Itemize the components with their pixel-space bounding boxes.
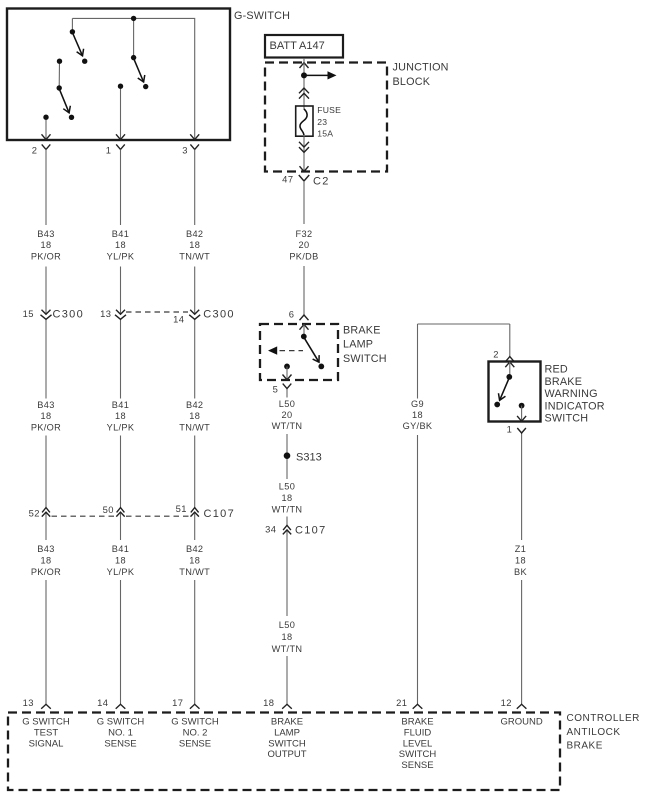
svg-text:OUTPUT: OUTPUT — [267, 749, 306, 760]
svg-text:WT/TN: WT/TN — [272, 421, 303, 431]
svg-text:18: 18 — [282, 632, 293, 642]
svg-text:B42: B42 — [186, 229, 203, 239]
svg-text:BRAKE: BRAKE — [567, 741, 603, 752]
svg-text:21: 21 — [396, 697, 407, 708]
svg-text:BRAKE: BRAKE — [401, 717, 433, 728]
svg-text:GROUND: GROUND — [500, 717, 542, 728]
svg-text:18: 18 — [41, 240, 52, 250]
svg-text:2: 2 — [32, 145, 38, 156]
svg-text:ANTILOCK: ANTILOCK — [567, 727, 621, 738]
svg-text:WT/TN: WT/TN — [272, 644, 303, 654]
svg-text:BLOCK: BLOCK — [393, 76, 431, 88]
svg-text:13: 13 — [100, 308, 111, 319]
svg-text:CONTROLLER: CONTROLLER — [567, 713, 640, 724]
svg-text:F32: F32 — [296, 229, 313, 239]
svg-text:B41: B41 — [112, 544, 129, 554]
svg-text:SWITCH: SWITCH — [268, 738, 306, 749]
svg-text:SIGNAL: SIGNAL — [29, 738, 64, 749]
svg-text:S313: S313 — [296, 452, 322, 464]
svg-text:13: 13 — [23, 697, 34, 708]
svg-text:SENSE: SENSE — [401, 760, 433, 771]
svg-text:50: 50 — [103, 504, 114, 515]
svg-text:BATT A147: BATT A147 — [270, 40, 325, 52]
svg-text:SENSE: SENSE — [104, 738, 136, 749]
svg-text:SWITCH: SWITCH — [343, 353, 387, 365]
svg-text:B43: B43 — [37, 400, 54, 410]
svg-text:FUSE: FUSE — [317, 105, 341, 115]
svg-text:14: 14 — [173, 313, 184, 324]
svg-text:NO. 1: NO. 1 — [108, 728, 133, 739]
svg-text:TN/WT: TN/WT — [179, 252, 210, 262]
svg-text:Z1: Z1 — [515, 544, 526, 554]
svg-text:C300: C300 — [53, 309, 85, 321]
svg-text:G SWITCH: G SWITCH — [22, 717, 70, 728]
svg-text:B42: B42 — [186, 544, 203, 554]
svg-text:SWITCH: SWITCH — [545, 413, 589, 425]
svg-text:34: 34 — [265, 523, 276, 534]
svg-text:PK/OR: PK/OR — [31, 567, 61, 577]
svg-text:SENSE: SENSE — [179, 738, 211, 749]
svg-text:YL/PK: YL/PK — [107, 567, 135, 577]
svg-text:1: 1 — [106, 145, 112, 156]
svg-text:47: 47 — [282, 173, 293, 184]
svg-text:18: 18 — [263, 697, 274, 708]
svg-text:17: 17 — [172, 697, 183, 708]
svg-text:WARNING: WARNING — [545, 388, 598, 400]
svg-text:15: 15 — [23, 308, 34, 319]
svg-text:52: 52 — [29, 507, 40, 518]
svg-text:G-SWITCH: G-SWITCH — [234, 10, 290, 22]
svg-text:2: 2 — [493, 348, 499, 359]
svg-text:B43: B43 — [37, 544, 54, 554]
svg-text:G SWITCH: G SWITCH — [97, 717, 145, 728]
svg-text:LAMP: LAMP — [343, 339, 373, 351]
svg-text:C107: C107 — [295, 524, 327, 536]
svg-text:20: 20 — [299, 240, 310, 250]
svg-text:14: 14 — [97, 697, 108, 708]
svg-text:18: 18 — [115, 411, 126, 421]
svg-text:BRAKE: BRAKE — [545, 376, 583, 388]
svg-text:18: 18 — [41, 411, 52, 421]
svg-text:C300: C300 — [203, 309, 235, 321]
svg-text:GY/BK: GY/BK — [403, 421, 433, 431]
svg-text:18: 18 — [189, 411, 200, 421]
svg-text:18: 18 — [115, 240, 126, 250]
svg-text:JUNCTION: JUNCTION — [393, 62, 449, 74]
svg-text:B42: B42 — [186, 400, 203, 410]
svg-text:LAMP: LAMP — [274, 728, 300, 739]
svg-text:TN/WT: TN/WT — [179, 423, 210, 433]
svg-text:LEVEL: LEVEL — [403, 738, 433, 749]
svg-text:6: 6 — [289, 309, 295, 320]
svg-text:L50: L50 — [279, 399, 295, 409]
svg-text:12: 12 — [501, 697, 512, 708]
svg-text:WT/TN: WT/TN — [272, 505, 303, 515]
svg-text:PK/DB: PK/DB — [289, 252, 318, 262]
svg-text:18: 18 — [189, 556, 200, 566]
svg-text:B41: B41 — [112, 400, 129, 410]
svg-text:SWITCH: SWITCH — [399, 749, 437, 760]
svg-text:B43: B43 — [37, 229, 54, 239]
svg-text:C107: C107 — [204, 508, 236, 520]
svg-text:PK/OR: PK/OR — [31, 252, 61, 262]
svg-text:18: 18 — [412, 410, 423, 420]
svg-text:51: 51 — [176, 503, 187, 514]
svg-text:18: 18 — [115, 556, 126, 566]
svg-text:YL/PK: YL/PK — [107, 423, 135, 433]
svg-text:L50: L50 — [279, 620, 295, 630]
svg-text:YL/PK: YL/PK — [107, 252, 135, 262]
svg-text:18: 18 — [189, 240, 200, 250]
svg-text:20: 20 — [282, 410, 293, 420]
svg-text:3: 3 — [182, 145, 188, 156]
svg-text:18: 18 — [515, 556, 526, 566]
svg-text:TEST: TEST — [34, 728, 58, 739]
svg-text:TN/WT: TN/WT — [179, 567, 210, 577]
svg-text:B41: B41 — [112, 229, 129, 239]
svg-text:18: 18 — [41, 556, 52, 566]
svg-text:1: 1 — [507, 424, 513, 435]
svg-text:INDICATOR: INDICATOR — [545, 400, 605, 412]
svg-text:FLUID: FLUID — [404, 728, 432, 739]
svg-text:C2: C2 — [313, 176, 330, 188]
svg-text:G SWITCH: G SWITCH — [171, 717, 219, 728]
svg-text:BRAKE: BRAKE — [343, 325, 381, 337]
svg-text:PK/OR: PK/OR — [31, 423, 61, 433]
svg-text:23: 23 — [317, 117, 327, 127]
svg-text:RED: RED — [545, 364, 568, 376]
svg-text:18: 18 — [282, 493, 293, 503]
svg-text:G9: G9 — [411, 399, 424, 409]
svg-text:BRAKE: BRAKE — [271, 717, 303, 728]
svg-text:L50: L50 — [279, 482, 295, 492]
svg-text:5: 5 — [273, 383, 279, 394]
svg-text:15A: 15A — [317, 128, 333, 138]
svg-text:NO. 2: NO. 2 — [183, 728, 208, 739]
svg-text:BK: BK — [514, 567, 527, 577]
